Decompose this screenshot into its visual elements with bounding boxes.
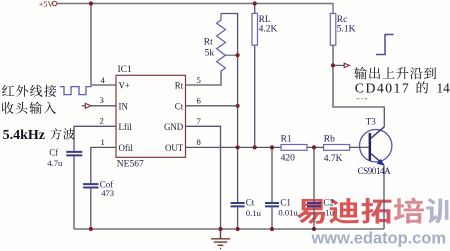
resistor R1 420 box bbox=[186, 146, 282, 148]
svg-text:Rb: Rb bbox=[324, 134, 335, 144]
svg-text:C1: C1 bbox=[280, 198, 291, 208]
wire: pin 1 (Ofil) to Cof bbox=[91, 147, 116, 183]
annotation: infrared receiver input text bbox=[2, 85, 56, 97]
svg-text:V+: V+ bbox=[119, 81, 130, 91]
input port triangle into pin 3 bbox=[82, 103, 91, 108]
rising edge step symbol bbox=[376, 35, 394, 55]
svg-text:Lfil: Lfil bbox=[119, 122, 133, 132]
wire: Cof to bottom rail bbox=[90, 189, 92, 230]
wire: emitter down to bottom rail bbox=[383, 165, 385, 229]
svg-text:Rt: Rt bbox=[175, 81, 184, 91]
capacitor Cf 4.7u plates bbox=[66, 152, 82, 156]
svg-text:GND: GND bbox=[164, 122, 184, 132]
ground symbol bbox=[211, 229, 230, 248]
wire: RL bottom to pin 8 net bbox=[254, 45, 256, 147]
wire: pin 5 to Rt bottom bbox=[186, 71, 222, 85]
ground rail wire bbox=[74, 228, 384, 230]
square wave symbol (input 5.4kHz) bbox=[60, 87, 92, 95]
annotation: output rising edge text line 1 bbox=[354, 67, 436, 79]
transistor Q1 T3 CS9014A circle bbox=[360, 130, 392, 162]
C2 plates bbox=[307, 203, 321, 206]
svg-text:IC1: IC1 bbox=[118, 65, 133, 75]
svg-text:RL: RL bbox=[259, 15, 271, 25]
wire: Rt top over to Ct net vertical bbox=[221, 14, 238, 203]
svg-text:Ofil: Ofil bbox=[119, 143, 134, 153]
+5V terminal circle bbox=[53, 1, 57, 5]
svg-text:0.01u: 0.01u bbox=[278, 207, 298, 217]
svg-text:7: 7 bbox=[197, 116, 202, 126]
svg-text:1u: 1u bbox=[325, 207, 334, 217]
wire: C2 to bottom rail bbox=[313, 207, 315, 229]
node +5V net: top supply rail bbox=[57, 4, 333, 14]
wire: +5V rail to RL top bbox=[254, 4, 256, 14]
svg-text:4: 4 bbox=[101, 75, 106, 85]
svg-text:5: 5 bbox=[197, 75, 201, 85]
wire: Rb to transistor base bbox=[350, 146, 369, 148]
svg-text:T3: T3 bbox=[366, 117, 376, 127]
svg-text:5.1K: 5.1K bbox=[337, 25, 356, 35]
output arrow head bbox=[344, 63, 349, 67]
wire: Ct to bottom rail bbox=[237, 207, 239, 229]
svg-text:3: 3 bbox=[100, 95, 104, 105]
wire: Rc bottom to output node and transistor collector bbox=[333, 45, 384, 127]
T3 emitter stroke with arrow bbox=[371, 154, 384, 165]
wire: pin 2 (Lfil) to Cf bbox=[74, 126, 116, 151]
wire: R1 to Rb bbox=[307, 146, 324, 148]
svg-text:NE567: NE567 bbox=[117, 160, 144, 170]
svg-text:5.4kHz: 5.4kHz bbox=[3, 128, 45, 143]
svg-text:4.7K: 4.7K bbox=[324, 154, 343, 164]
svg-text:OUT: OUT bbox=[165, 143, 184, 153]
wire: input to pin 3 bbox=[91, 105, 116, 107]
svg-text:473: 473 bbox=[101, 188, 114, 198]
tiny gray marks under CD4017 bbox=[357, 98, 368, 100]
svg-text:6: 6 bbox=[197, 96, 202, 106]
capacitor C1 0.01u vertical from pin8 net bbox=[271, 147, 273, 203]
svg-text:420: 420 bbox=[281, 153, 296, 163]
capacitor Ct 0.1u plates bbox=[231, 203, 245, 206]
svg-text:Ct: Ct bbox=[175, 101, 184, 111]
svg-text:4.2K: 4.2K bbox=[259, 25, 278, 35]
wire: output node stub bbox=[333, 64, 344, 66]
wire: pin 7 GND to bottom rail bbox=[186, 126, 221, 229]
wire: +5V rail down to IC pin 4 (V+) bbox=[91, 4, 116, 86]
svg-text:Rc: Rc bbox=[337, 15, 348, 25]
svg-text:5k: 5k bbox=[205, 49, 215, 59]
C1 plates bbox=[265, 203, 279, 206]
svg-text:0.1u: 0.1u bbox=[246, 208, 262, 218]
wire: pin 6 to Ct vertical bbox=[186, 105, 238, 107]
wire: Cf to bottom rail bbox=[73, 156, 75, 229]
svg-text:Ct: Ct bbox=[246, 198, 255, 208]
svg-text:14: 14 bbox=[437, 80, 450, 95]
capacitor C2 1u vertical from R1/Rb node bbox=[313, 147, 315, 203]
resistor Rc 5.1K box bbox=[330, 13, 336, 45]
capacitor Cof 473 plates bbox=[83, 184, 98, 187]
op-amp U1: IC1 NE567 tone decoder box bbox=[116, 75, 186, 157]
svg-text:4.7u: 4.7u bbox=[47, 158, 63, 168]
resistor Rb 4.7K box bbox=[324, 145, 350, 151]
resistor RL 4.2K box bbox=[252, 13, 258, 45]
svg-text:8: 8 bbox=[197, 137, 202, 147]
svg-text:2: 2 bbox=[100, 116, 104, 126]
watermark: red Chinese logo bbox=[297, 198, 450, 224]
T3 collector stroke bbox=[371, 127, 384, 138]
svg-text:IN: IN bbox=[119, 101, 129, 111]
T3 base bar bbox=[369, 133, 372, 161]
Rt wiper tap to vertical net bbox=[225, 54, 237, 56]
svg-text:R1: R1 bbox=[281, 134, 292, 144]
wire: C1 to bottom rail bbox=[271, 207, 273, 229]
svg-text:CS9014A: CS9014A bbox=[358, 166, 392, 176]
svg-text:1: 1 bbox=[101, 137, 105, 147]
svg-text:C2: C2 bbox=[323, 198, 334, 208]
svg-text:Cf: Cf bbox=[49, 147, 58, 157]
svg-text:+5V: +5V bbox=[39, 0, 54, 9]
svg-text:www.edatop.com: www.edatop.com bbox=[311, 229, 447, 247]
svg-text:Rt: Rt bbox=[204, 38, 213, 48]
resistor Rt 5k zigzag body bbox=[217, 14, 226, 72]
